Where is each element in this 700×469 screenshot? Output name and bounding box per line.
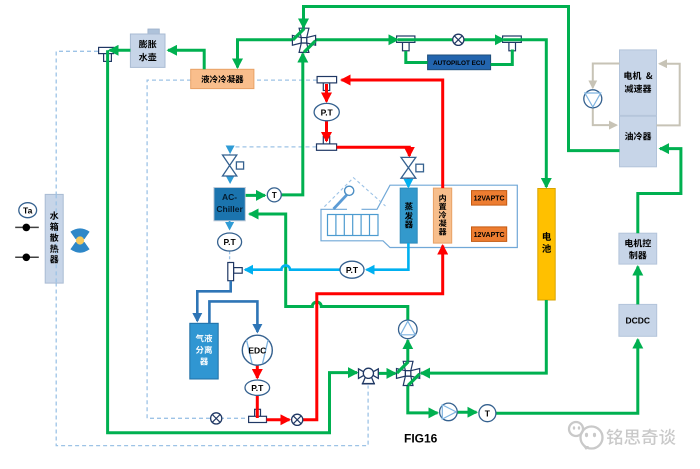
- svg-text:12VAPTC: 12VAPTC: [474, 232, 505, 239]
- HVAC intake dashed roof: [324, 178, 385, 207]
- expansion tank cap: [148, 29, 159, 35]
- svg-text:T: T: [485, 409, 491, 419]
- svg-text:Chiller: Chiller: [216, 204, 243, 214]
- EDC compressor: [242, 335, 272, 365]
- expansion tank 膨胀水壶: [130, 34, 165, 67]
- P.T sensor below AC-Chiller: [218, 233, 242, 251]
- radiator fan: [70, 228, 89, 252]
- wire green DCDC to motor controller: [636, 267, 639, 305]
- shutoff valve on hot gas line: [292, 414, 303, 425]
- P.T sensor below EDC: [245, 380, 270, 395]
- AUTOPILOT ECU box: [428, 55, 491, 70]
- oil cooler 油冷器 box: [620, 116, 657, 167]
- wire green tee 1 branch to autopilot ecu: [406, 51, 428, 63]
- svg-text:FIG16: FIG16: [404, 432, 438, 446]
- label gas-liquid separator: [196, 334, 213, 365]
- coolant pump 1: [399, 320, 418, 339]
- label expansion tank: [139, 40, 157, 61]
- svg-text:AC-: AC-: [222, 192, 237, 202]
- red tee fitting 1: [317, 77, 337, 91]
- svg-text:T: T: [272, 191, 277, 200]
- ambient temp sensor Ta: [19, 203, 37, 218]
- coolant pump 2: [440, 403, 458, 421]
- svg-text:EDC: EDC: [248, 346, 266, 356]
- evaporator 蒸发器 box: [400, 188, 417, 243]
- shutoff valve on top header: [453, 34, 464, 45]
- wire green main left riser and bottom run to 3-way valve: [108, 50, 357, 432]
- red tee fitting 2: [317, 137, 337, 151]
- wire blue AC-Chiller to P.T sensor: [229, 221, 231, 229]
- wire green pump to AC-Chiller inlet: [250, 214, 408, 320]
- motor and reducer 电机&减速器 box: [620, 50, 657, 116]
- label motor controller: [625, 239, 651, 259]
- wire green T sensor to DCDC: [496, 340, 638, 414]
- 3-way valve: [359, 368, 379, 384]
- watermark text: [606, 429, 675, 445]
- HVAC case outline: [321, 185, 517, 247]
- T sensor at AC-Chiller: [267, 188, 281, 202]
- svg-text:AUTOPILOT ECU: AUTOPILOT ECU: [433, 60, 485, 67]
- P.T sensor on hot line: [314, 103, 339, 120]
- svg-text:Ta: Ta: [23, 205, 33, 215]
- wire red condenser top to fitting 1: [342, 80, 443, 188]
- wire green expansion tank to tee: [110, 49, 131, 52]
- wire red P.T sensor to fitting 3: [256, 395, 259, 418]
- wire green oil cooler outlet to top header to 4-way valve: [304, 7, 620, 151]
- svg-text:P.T: P.T: [251, 383, 264, 393]
- wire dashed mid refrigerant sense line: [229, 147, 317, 155]
- label cabin condenser: [439, 194, 447, 235]
- wire green pump 2 to T sensor: [457, 411, 476, 414]
- oil pump: [584, 90, 602, 108]
- wire red P.T sensor to fitting 2: [325, 121, 328, 141]
- wire cyan P.T sensor to suction fitting: [245, 265, 340, 269]
- label motor and reducer: [624, 71, 652, 92]
- PTC heater 12VAPTC 2 box: [472, 227, 507, 242]
- label battery: [542, 232, 551, 253]
- motor controller 电机控制器 box: [619, 233, 657, 264]
- radiator 水箱散热器: [45, 194, 63, 283]
- gas-liquid separator 气液分离器 box: [190, 323, 218, 379]
- wire blue separator to EDC compressor: [209, 301, 257, 332]
- label evaporator: [405, 202, 413, 228]
- ambient temp probe 2: [15, 253, 39, 261]
- wire green 3-way valve to 4-way mixing valve: [378, 372, 395, 375]
- wire green 4-way valve right to tee 1: [312, 38, 398, 41]
- wire green shutoff valve to tee 2: [464, 38, 504, 41]
- DCDC converter box: [619, 304, 657, 336]
- wire dashed control loop outer: [56, 51, 368, 445]
- tee fitting 2 top: [503, 36, 522, 51]
- wire green 4-way valve left port to condenser top: [238, 40, 296, 68]
- label AC-Chiller: [216, 192, 243, 214]
- P.T sensor on suction line: [340, 261, 364, 278]
- wire green condenser to expansion tank: [168, 50, 204, 69]
- T sensor bottom: [479, 405, 496, 422]
- wire blue expansion valve 1 to AC-Chiller: [229, 178, 231, 183]
- svg-text:P.T: P.T: [224, 237, 237, 247]
- tee fitting 1 top: [397, 36, 415, 51]
- HVAC blower slats: [328, 215, 379, 236]
- battery 电池 box: [538, 189, 555, 301]
- 4-way mixing valve bottom: [397, 361, 420, 385]
- wire red shutoff valve riser to condenser bottom: [303, 246, 443, 420]
- label radiator: [50, 211, 59, 263]
- wire green autopilot ecu to tee 2 branch: [491, 50, 513, 65]
- svg-text:12VAPTC: 12VAPTC: [474, 196, 505, 203]
- wire blue suction fitting to gas-liquid separator: [197, 281, 230, 321]
- suction tee fitting below AC-Chiller: [228, 263, 242, 281]
- svg-text:P.T: P.T: [346, 265, 359, 275]
- wire green motor controller to oil cooler: [638, 149, 681, 234]
- wire cyan evaporator outlet to P.T sensor: [367, 243, 409, 270]
- HVAC flap lever: [334, 186, 354, 209]
- wire green battery outlet to mixing valve: [421, 300, 546, 373]
- expansion valve 2: [401, 157, 424, 178]
- wire green tee 2 to battery top: [504, 40, 546, 187]
- wire red EDC compressor to P.T sensor: [256, 365, 259, 378]
- svg-text:P.T: P.T: [321, 107, 334, 117]
- ambient temp probe 1: [15, 224, 39, 232]
- label liquid-cooled condenser: [201, 75, 243, 83]
- shutoff valve on dashed line: [211, 413, 222, 424]
- wire green AC-Chiller outlet to T sensor: [246, 194, 265, 197]
- wire blue arrow into expansion valve 1: [229, 148, 231, 153]
- wire cyan expansion valve 2 to evaporator: [407, 179, 410, 187]
- wire gray oil cooler to motor return: [657, 64, 680, 126]
- watermark logo: [569, 422, 603, 449]
- AC-Chiller box: [214, 188, 245, 221]
- wire red fitting 3 to shutoff valve: [267, 418, 290, 421]
- wire green mixing valve bottom run to pump 2: [408, 383, 438, 413]
- wire dashed control line over radiator: [55, 194, 57, 283]
- wire gray motor to oil pump: [593, 64, 620, 88]
- wire green mixing valve top to pump: [406, 340, 409, 364]
- wire dashed P.T to suction fitting: [229, 251, 231, 261]
- wire dashed control loop inner: [147, 80, 317, 418]
- wire gray oil pump to oil cooler: [593, 108, 617, 125]
- wire red fitting 2 to expansion valve 2: [337, 147, 410, 156]
- tee fitting at expansion tank: [99, 47, 114, 61]
- cabin condenser 内置冷凝器 box: [433, 188, 451, 243]
- wire red fitting 1 stem to P.T sensor: [325, 84, 328, 102]
- expansion valve 1: [223, 155, 244, 176]
- PTC heater 12VAPTC 1 box: [472, 191, 507, 206]
- red tee fitting 3: [249, 409, 267, 422]
- svg-text:DCDC: DCDC: [626, 316, 651, 326]
- wire green tee 1 to shutoff valve: [398, 38, 453, 41]
- liquid-cooled condenser 液冷冷凝器: [191, 69, 254, 88]
- 4-way valve top: [292, 28, 315, 52]
- label oil cooler: [625, 132, 652, 141]
- wire green T sensor riser to 4-way valve bottom: [281, 54, 303, 195]
